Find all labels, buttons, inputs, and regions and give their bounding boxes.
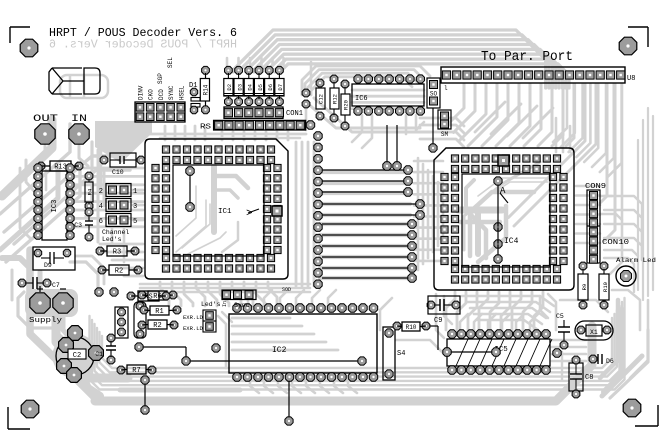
wire ic3 left 2 (20, 168, 30, 238)
wire field-ic4row 9 (414, 249, 443, 252)
wire c9-ic5 4 (474, 314, 542, 324)
wire ic1 left low 4 (118, 267, 143, 270)
wire ic1 left 4 (74, 192, 143, 195)
wire center field 8 (320, 244, 410, 248)
resistor R2a (98, 266, 106, 274)
wire x1-band (591, 344, 593, 356)
svg-text:IC1: IC1 (218, 208, 232, 216)
resistor R3 (96, 247, 104, 255)
pad IC5 right (553, 349, 561, 357)
svg-text:R9: R9 (581, 284, 588, 291)
diode D6 (589, 355, 597, 363)
svg-text:4: 4 (99, 203, 103, 211)
wire d9 area band (70, 262, 98, 288)
wire con9 right 4 (604, 238, 642, 260)
svg-text:HSEL: HSEL (178, 85, 185, 100)
wire ic1 bottom 2 (172, 282, 181, 306)
LED alarm (616, 266, 636, 286)
copper left edge band (2, 258, 95, 399)
wire ic1 bottom 1 (160, 282, 169, 306)
wire right con9 links (600, 195, 612, 197)
svg-text:S4: S4 (397, 350, 405, 358)
svg-text:D6: D6 (267, 84, 274, 91)
mounting hole top-right (619, 37, 637, 55)
wire ic4-ic5 mesh3 (540, 296, 548, 318)
svg-text:C2: C2 (73, 352, 81, 360)
wire left-ic4 1 (420, 118, 464, 126)
wire ic2 inner 5 (232, 349, 338, 352)
svg-text:EXR.LD: EXR.LD (183, 314, 204, 321)
wire wedge tail (98, 145, 103, 190)
svg-text:2: 2 (99, 188, 103, 196)
wire header drop 2 (454, 84, 476, 133)
svg-text:IN: IN (71, 113, 87, 125)
wire right band (600, 300, 618, 378)
wire ic1 left 2 (74, 175, 143, 178)
svg-text:IC2: IC2 (272, 346, 287, 355)
svg-text:Channel: Channel (102, 229, 129, 236)
wire R7 to pad (141, 376, 149, 384)
wire c12 vert2 (310, 62, 313, 88)
wire drop con9 b (604, 84, 615, 241)
wire field-ic4row 7 (414, 226, 443, 229)
resistor R14 (202, 66, 210, 74)
svg-text:D7: D7 (277, 84, 284, 91)
wire mid vert b (97, 150, 100, 242)
wire ic1 left 6 (74, 209, 143, 212)
wire drop con9 c (610, 84, 622, 274)
wire supply loop (18, 292, 78, 352)
wire ic1 top left 5 (204, 126, 207, 140)
wire ic1 bottom 9 (256, 282, 265, 306)
IC IC4 socket (434, 148, 574, 290)
svg-text:R14: R14 (203, 84, 210, 95)
switch S4 (383, 327, 395, 380)
svg-text:R7: R7 (132, 367, 140, 375)
board corner mark top-left (10, 26, 30, 28)
header CON1 (224, 107, 283, 118)
wire ic4 bottom 6 (501, 292, 510, 330)
svg-text:D3: D3 (236, 84, 243, 91)
pad pair left of R5 (95, 288, 103, 296)
wire center field 4 (320, 202, 410, 206)
wire R10h to IC5 (430, 325, 438, 327)
wire diode stub 6 (282, 58, 285, 66)
svg-text:R3: R3 (113, 249, 121, 257)
wire ic4 ne vert 3 (569, 126, 572, 152)
wire field-ic4row 3 (414, 182, 443, 185)
wire wedge tail2 (86, 142, 92, 216)
wire ic4 inner fan2 (464, 162, 540, 250)
svg-text:HRPT / POUS Decoder Vers. 6: HRPT / POUS Decoder Vers. 6 (49, 26, 237, 40)
wire diag ic6b (314, 98, 430, 132)
wire ic2 bottom 4 (292, 380, 301, 393)
wire center field 3 (320, 191, 410, 195)
wire left-ic4 4 (420, 139, 464, 147)
wire field-ic4 2 (422, 164, 425, 264)
capacitor C8 (569, 363, 583, 391)
copper supply band left (30, 250, 96, 398)
wire jumper-ic1 y220 (133, 219, 143, 222)
wire ic2 bottom 6 (320, 380, 329, 393)
wire mid vert a (103, 168, 106, 206)
svg-text:C7: C7 (52, 282, 60, 289)
capacitor C2 (56, 337, 94, 375)
svg-text:R4: R4 (87, 188, 94, 195)
wire ic2 top 3 (280, 290, 288, 306)
wire ic2 bottom 3 (278, 380, 287, 393)
resistor R12 (330, 75, 338, 83)
wire ic2 bottom 5 (306, 380, 315, 393)
wire IC4 internal (494, 177, 502, 185)
svg-text:R2: R2 (115, 268, 123, 276)
wire ic4 right 6 (576, 232, 600, 235)
wire ic1 left 7 (74, 217, 143, 220)
wire ic1 wisp3 (176, 186, 196, 236)
wire bottom arc 5 (92, 302, 622, 385)
svg-text:SYNC: SYNC (168, 85, 175, 100)
wire supply-c2 trunk (63, 316, 70, 338)
wire center field 7 (320, 233, 410, 237)
wire bottom arc 2 (100, 314, 615, 372)
wire ic1 left low 3 (112, 259, 143, 262)
wire ic1 trunk branch2 (214, 190, 238, 198)
resistor R7 (117, 366, 125, 374)
IC IC1 socket (145, 139, 288, 279)
resistor R5 (127, 292, 135, 300)
regulator IC7 (115, 307, 128, 338)
svg-text:3: 3 (133, 203, 137, 211)
wire ic1 top left 4 (194, 126, 197, 140)
pad RS end (306, 121, 314, 129)
IC IC6 (352, 84, 424, 106)
wire field-ic4 5 (437, 182, 440, 246)
wire br diag band (602, 356, 642, 396)
wire ne comb 8 (608, 84, 622, 177)
wire header drop 10 (552, 84, 563, 146)
wire ic4 inner wisp2 (482, 182, 548, 200)
wire ic1 top 1 (221, 132, 224, 140)
svg-text:Led's: Led's (102, 236, 122, 243)
svg-text:D9: D9 (44, 262, 52, 269)
svg-text:R1: R1 (155, 308, 163, 316)
wire header drop 7 (510, 84, 530, 146)
connector OUT (35, 124, 55, 144)
capacitor C3 (85, 208, 93, 216)
svg-text:IC6: IC6 (355, 95, 368, 103)
fuse F1 (49, 68, 84, 94)
pad stray 1 (302, 89, 310, 97)
wire ic5 top 2 (474, 314, 482, 330)
wire right edge 1 (647, 108, 649, 296)
svg-text:D4: D4 (247, 83, 254, 90)
wire ic4 right 7 (576, 242, 600, 245)
capacitor C10 (100, 156, 108, 164)
wire ic2 inner 4 (232, 341, 326, 344)
svg-text:C8: C8 (585, 374, 593, 382)
wire ic4 inner fan (470, 192, 534, 256)
wire top bundle 5 (261, 49, 559, 88)
wire ic6 under 1 (352, 89, 424, 92)
svg-text:EXR.LD: EXR.LD (183, 325, 204, 332)
svg-text:C5: C5 (556, 313, 564, 320)
wire top bundle 8 (282, 64, 569, 88)
wire con9 right 3 (604, 224, 642, 260)
connector IN (69, 124, 89, 144)
svg-text:In: In (222, 301, 228, 307)
wire ic1 bottom 3 (184, 282, 193, 306)
wire field-ic4row 8 (414, 237, 443, 240)
wire IC1 internal (186, 167, 194, 175)
resistor R1 (140, 306, 148, 314)
header SO (427, 78, 440, 108)
wire ic4-ic5 mesh2 (436, 294, 444, 338)
wire jumper verts2 (123, 228, 126, 262)
wire ic4 inner vert (470, 214, 486, 258)
wire ic2 top 4 (296, 290, 304, 306)
wire field-ic4row 1 (414, 160, 443, 163)
wire right edge 4 (637, 140, 639, 290)
wire ic4 bottom 7 (512, 292, 521, 330)
svg-text:C9: C9 (434, 317, 442, 325)
wire ic1-ic2 gap h1 (140, 283, 310, 286)
wire alarm vert (630, 300, 648, 378)
wire ic6 drop3 (405, 115, 408, 134)
wire ic1-ic2 gap h2 (140, 287, 310, 290)
wire con9 right 2 (604, 210, 642, 260)
wire ne comb 6 (592, 84, 606, 167)
svg-text:C12: C12 (318, 94, 325, 104)
wire header drop 8 (524, 84, 541, 146)
wire ic1 bottom 6 (220, 282, 229, 306)
wire ic4 right 3 (576, 204, 600, 207)
wire x1 area (560, 300, 608, 312)
wire ic1 bottom 8 (244, 282, 253, 306)
wire ic6 feed 1 (302, 66, 430, 95)
svg-text:To Par. Port: To Par. Port (481, 50, 573, 65)
wire ic1 bottom 4 (196, 282, 205, 306)
wire ic1 left 1 (74, 167, 143, 170)
wire ic4 bottom 9 (534, 292, 543, 330)
svg-text:CKO: CKO (148, 89, 155, 100)
wire ne diag extra 4 (523, 108, 553, 138)
wire ic6 feed 4 (311, 77, 412, 95)
wire ic1 bottom 5 (208, 282, 217, 306)
wire ic2 bottom 2 (264, 380, 273, 393)
svg-text:Sync: Sync (234, 302, 250, 309)
wire top bundle 6 (268, 54, 562, 88)
wire drop con9 a (600, 84, 607, 203)
wire header drop 12 (509, 84, 586, 218)
wire ic2 bottom 1 (250, 380, 259, 393)
wire ic4 bottom 3 (468, 292, 477, 330)
wire ne comb 3 (569, 84, 583, 152)
header U8 parallel port (441, 67, 625, 83)
wire ic1 bottom 10 (268, 282, 277, 306)
wire header drop 1 (448, 84, 464, 124)
mounting hole bottom-left (21, 400, 39, 418)
copper pour wedge (95, 121, 152, 163)
wire ic1 left low 2 (106, 251, 143, 254)
capacitor C7 (18, 279, 26, 287)
wire ic1 trunk (211, 166, 217, 232)
wire ic5 right 4 (552, 360, 586, 363)
wire ic6 under 4 (352, 107, 424, 110)
wire ic5 right 3 (552, 353, 586, 356)
wire ic5 top 3 (488, 314, 496, 330)
capacitor C12 (316, 79, 324, 87)
wire c7 line (11, 270, 14, 300)
wire ic2-s4 (380, 298, 392, 330)
IC IC5 (447, 339, 550, 366)
wire con10 trace (604, 250, 638, 256)
wire ic4 bottom 5 (490, 292, 499, 330)
wire ic1 wisp1 (176, 200, 206, 252)
wire ic5 right 1 (552, 339, 586, 342)
wire ic4 ne vert 2 (562, 122, 565, 152)
ghost fuse copper (60, 75, 108, 98)
svg-text:R20: R20 (343, 100, 350, 110)
svg-text:DCD: DCD (158, 89, 165, 100)
svg-text:C10: C10 (112, 169, 124, 176)
wire header drop 5 (482, 84, 508, 146)
svg-text:SGP: SGP (157, 73, 164, 84)
wire ic2 inner 2 (232, 325, 302, 328)
svg-text:Supply: Supply (29, 317, 62, 325)
copper supply band (95, 326, 592, 401)
wire top bundle 4 (254, 45, 556, 89)
svg-text:RS: RS (200, 124, 212, 132)
capacitor C1 (107, 334, 115, 342)
wire center field 9 (320, 255, 410, 259)
wire ic6 under 2 (352, 95, 424, 98)
svg-text:CON9: CON9 (585, 183, 606, 191)
wire header drop 9 (538, 84, 552, 146)
header RS row (214, 120, 306, 130)
wire IC2 down pad (288, 380, 290, 418)
mounting hole top-left (20, 39, 38, 57)
resistor R4 (85, 172, 93, 180)
wire ne comb 5 (584, 84, 598, 162)
wire ic4 inner wisp (478, 178, 548, 196)
wire field-ic4row 6 (414, 215, 443, 218)
wire SM down (432, 108, 434, 144)
diode D9 (33, 247, 75, 270)
svg-text:D6: D6 (606, 358, 614, 365)
wire ic5 right 2 (552, 346, 586, 349)
capacitor C9 (427, 301, 435, 309)
wire diode stub 4 (260, 58, 263, 66)
wire header drop 4 (468, 84, 497, 146)
svg-text:SEL: SEL (167, 57, 174, 68)
board corner mark top-right (628, 26, 648, 28)
svg-text:R10: R10 (406, 324, 417, 331)
wire top bundle 1 (233, 30, 546, 88)
svg-text:SOD: SOD (282, 287, 291, 293)
wire ic4 right 5 (576, 223, 600, 226)
wire ic1 top 2 (232, 132, 235, 140)
svg-text:>: > (246, 208, 253, 220)
wire ic1 top 3 (243, 132, 246, 140)
resistor R10v (600, 262, 608, 270)
board corner mark bottom-right (635, 425, 658, 427)
wire ic2 top 2 (264, 290, 272, 306)
header SM (438, 110, 451, 129)
wire ic1 wisp4 (188, 232, 226, 254)
wire center field 11 (320, 276, 410, 280)
wire ne diag extra 1 (475, 102, 505, 132)
wire ic4 trunk down (475, 210, 481, 254)
IC4 special pad (498, 155, 509, 166)
wire d9 area band2 (76, 256, 104, 284)
wire ic4 bottom 8 (523, 292, 532, 330)
resistor R10h (393, 322, 401, 330)
wire ic4 bottom 2 (457, 292, 466, 330)
wire top bundle 2 (240, 35, 549, 88)
wire left-ic4 2 (420, 125, 464, 133)
pad stray 2 (302, 100, 310, 108)
svg-text:5: 5 (133, 218, 137, 226)
wire ic4-ic5 mesh4 (548, 294, 556, 330)
wire ic1 top 5 (265, 132, 268, 140)
wire ic1 left low 1 (100, 243, 143, 246)
wire top bundle 7 (275, 59, 566, 88)
wire ic1 wisp2 (182, 204, 210, 248)
wire ic2 inner 1 (232, 317, 290, 320)
wire jumper-ic1 y205 (133, 204, 143, 207)
wire br diag band2 (610, 330, 648, 398)
svg-text:D5: D5 (257, 84, 264, 91)
wire left-ic4 3 (420, 132, 464, 140)
wire ic1 top 7 (287, 132, 290, 140)
wire ic5 top 4 (502, 314, 510, 330)
svg-text:SO: SO (430, 91, 438, 98)
wire out-in band3 (6, 170, 80, 262)
wire ic6 feed 2 (305, 70, 424, 95)
resistor R13 (37, 162, 45, 170)
svg-text:Alarm Led: Alarm Led (616, 257, 656, 264)
wire IC2 internal (182, 357, 190, 365)
wire drops to field (386, 125, 388, 162)
wire ic1-field vert 3 (307, 142, 310, 286)
mounting hole bottom-right (623, 399, 641, 417)
wire ic2 top 1 (248, 290, 256, 306)
wire field-ic4 1 (417, 158, 420, 270)
header In Sync (222, 290, 256, 300)
copper supply band 2 (56, 300, 128, 378)
wire right edge 2 (652, 116, 654, 290)
wire ic4 right 4 (576, 213, 600, 216)
resistor R6 (138, 291, 146, 299)
svg-text:RS: RS (144, 294, 152, 302)
wire ic1 left 8 (74, 225, 143, 228)
wire ic5 top 1 (460, 314, 468, 330)
wire center field 1 (320, 170, 410, 174)
wire out pad trace (36, 146, 45, 164)
header CON2 2x5 (135, 102, 185, 122)
copper c2 trunk down (80, 372, 100, 396)
wire diode stub 2 (237, 58, 240, 66)
wire ic5 top 5 (516, 314, 524, 330)
svg-text:OUT: OUT (33, 113, 58, 125)
wire ic1 top left 1 (164, 126, 167, 140)
wire ic6 under 3 (352, 101, 424, 104)
svg-text:D2: D2 (226, 84, 233, 91)
wire c9-ic5 2 (466, 302, 550, 312)
wire c9-ic5 5 (478, 320, 538, 330)
wire con9 right 1 (604, 196, 642, 260)
wire ic4-ic5 mesh1 (444, 296, 452, 324)
